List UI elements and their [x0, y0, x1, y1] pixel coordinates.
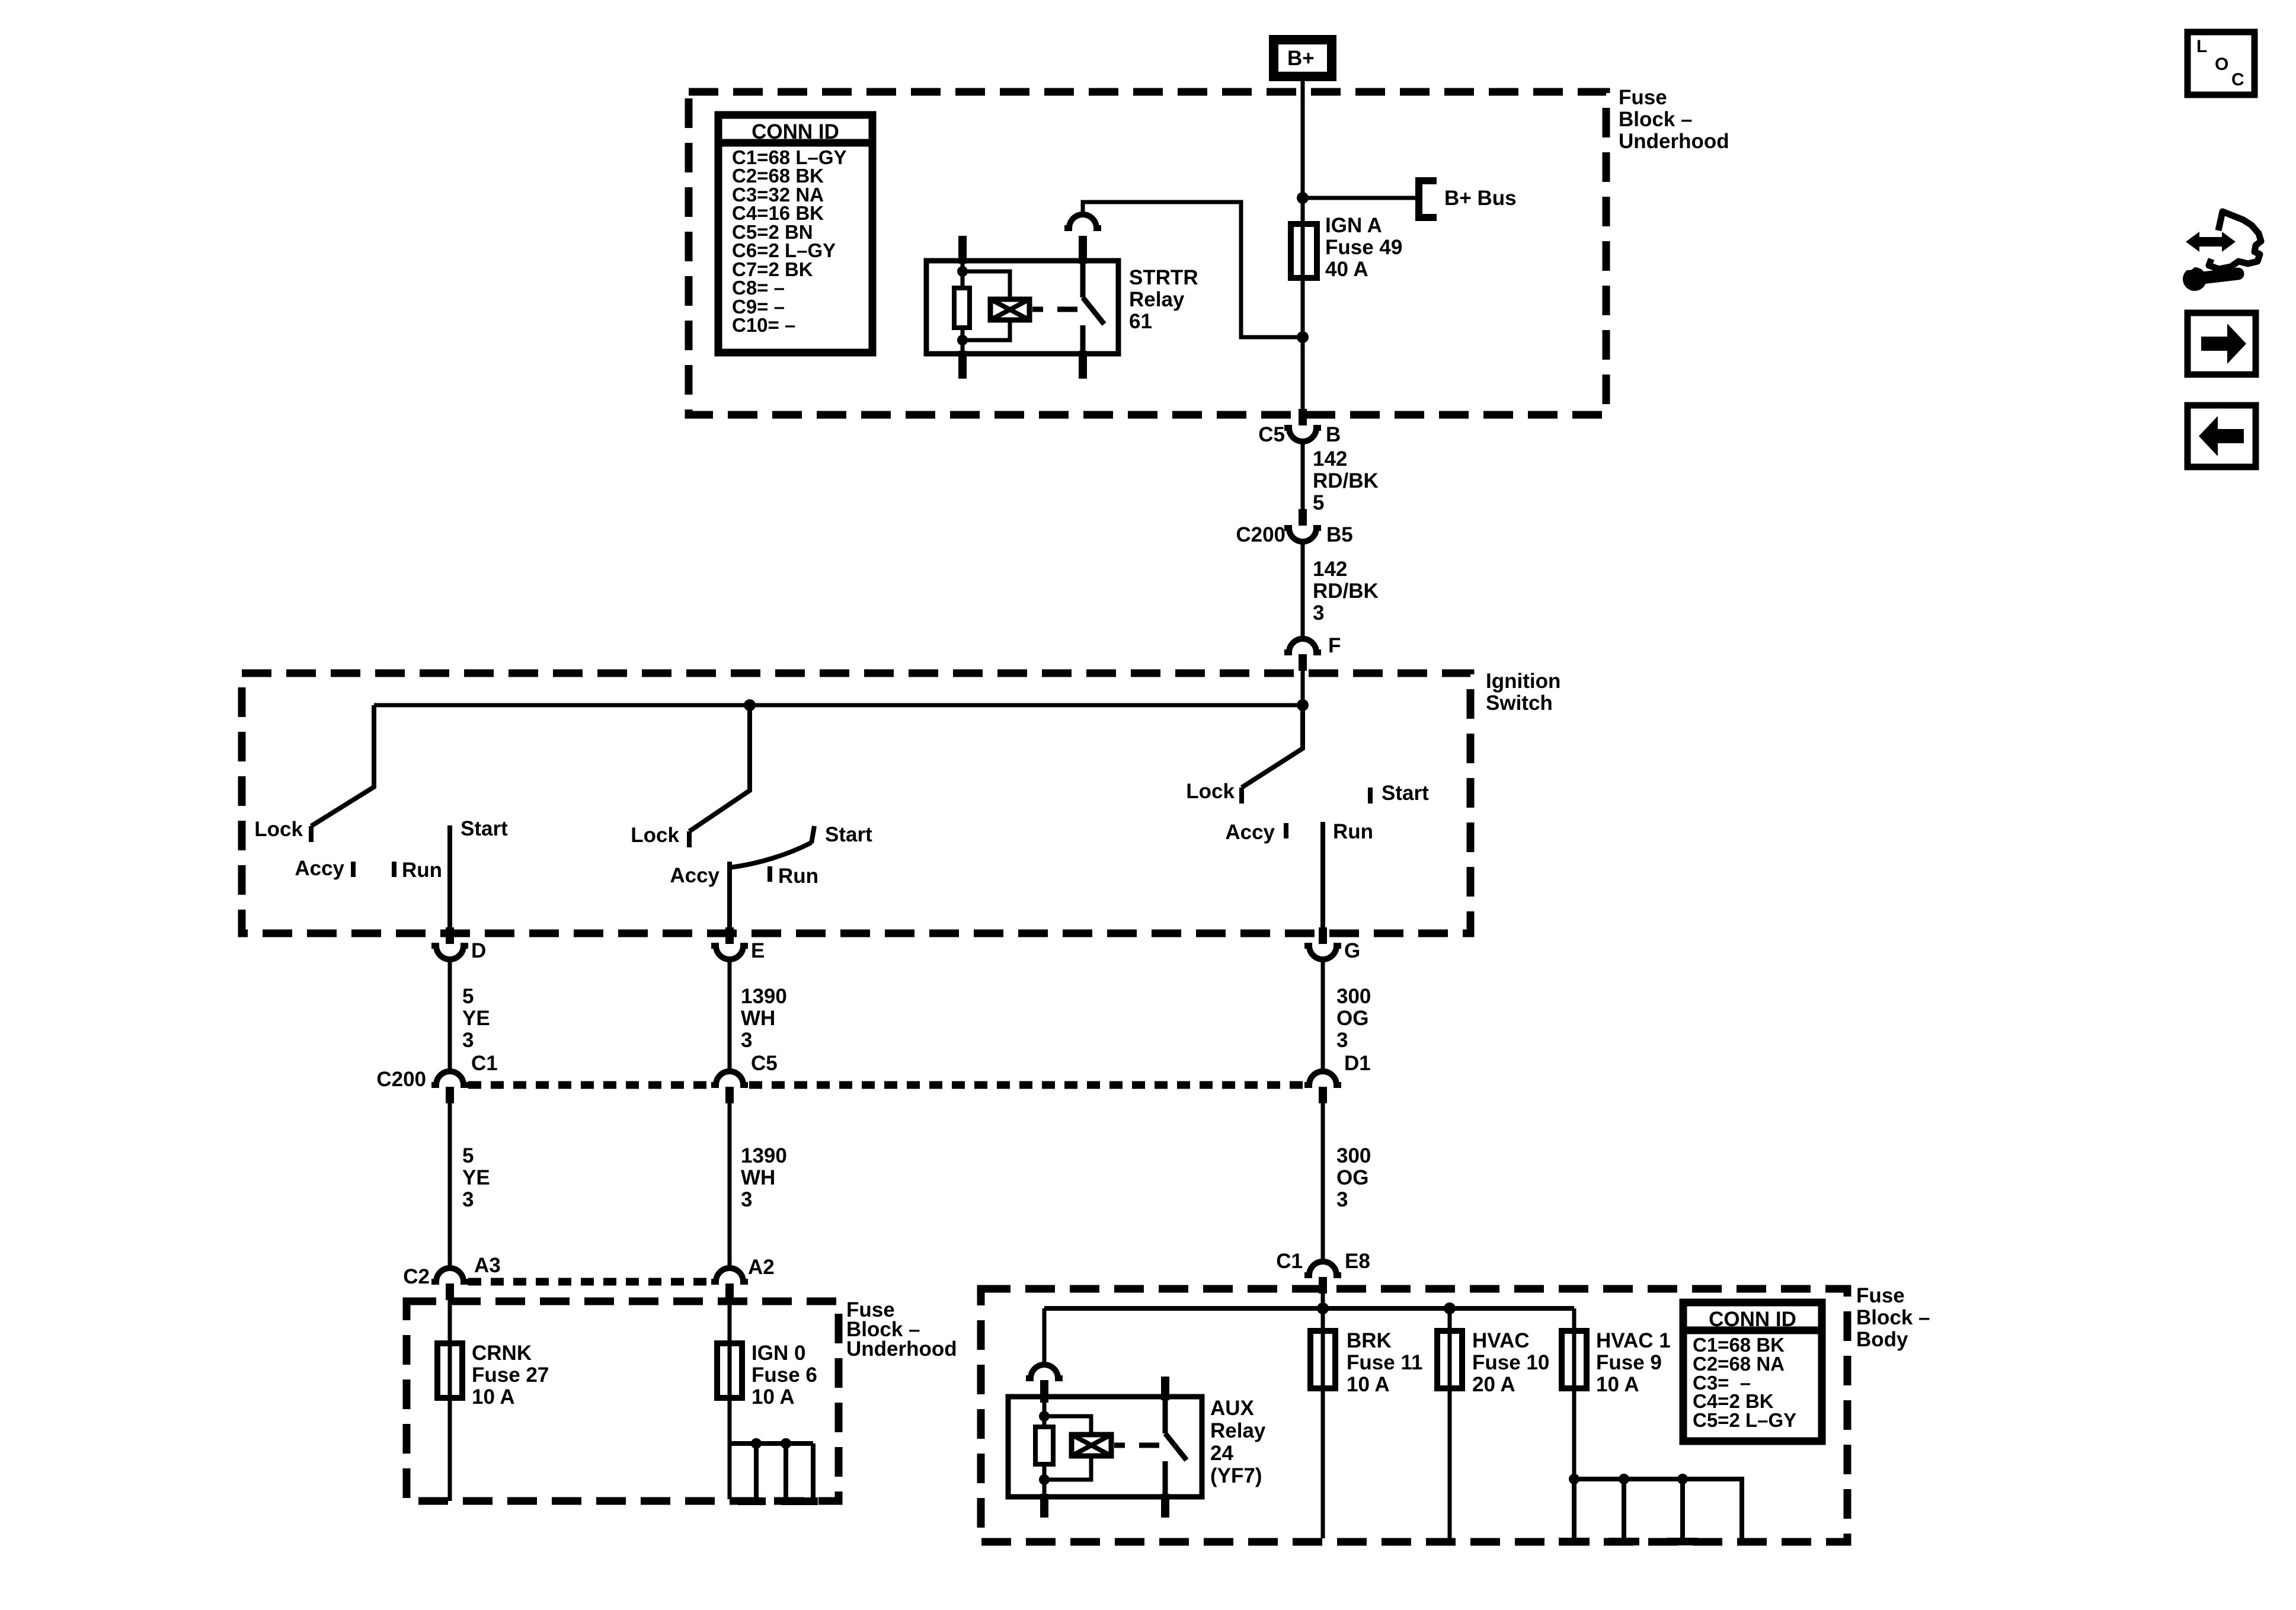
connector C200 pin B5 arc: [1284, 528, 1321, 542]
AUX relay actuator dashed link: [1114, 1443, 1159, 1448]
branch drop wires: [756, 1443, 813, 1499]
svg-text:C5: C5: [1258, 423, 1285, 446]
svg-text:Fuse: Fuse: [1619, 86, 1667, 109]
svg-text:OG: OG: [1336, 1007, 1368, 1030]
wire G down: [1321, 960, 1325, 1071]
label AUX Relay 24 (YF7): [1210, 1397, 1266, 1487]
wire HVAC to block bottom: [1448, 1388, 1452, 1538]
relay STRTR 61 box: [926, 261, 1118, 354]
junction dot AUX coil top: [1039, 1411, 1050, 1422]
svg-text:B: B: [1326, 423, 1341, 446]
svg-text:24: 24: [1210, 1442, 1233, 1465]
wire label 5 YE 3 (lower): [462, 1144, 490, 1211]
label Fuse Block Underhood (top right): [1619, 86, 1729, 153]
svg-text:10 A: 10 A: [472, 1385, 515, 1409]
svg-text:Fuse 10: Fuse 10: [1472, 1351, 1549, 1374]
svg-text:Run: Run: [1333, 820, 1373, 843]
svg-text:142: 142: [1313, 558, 1347, 581]
svg-text:A2: A2: [748, 1256, 775, 1279]
svg-text:Lock: Lock: [631, 824, 679, 847]
connector F arc: [1284, 639, 1321, 652]
svg-text:C10= –: C10= –: [732, 314, 795, 336]
wire C1 down: [448, 1103, 452, 1268]
C2-A2 inline connector dashed line: [468, 1278, 711, 1286]
svg-text:O: O: [2215, 55, 2228, 74]
wire label 300 OG 3 (lower): [1336, 1144, 1371, 1211]
svg-text:C5: C5: [751, 1052, 778, 1075]
junction dot HVAC1 branch 1: [1569, 1474, 1579, 1484]
svg-text:Fuse: Fuse: [1856, 1284, 1905, 1307]
junction dot branch 1: [751, 1438, 762, 1449]
connector arc at STRTR relay pin 30: [1064, 215, 1101, 228]
svg-text:C1: C1: [471, 1052, 498, 1075]
connector E arc: [711, 946, 748, 959]
label Fuse Block Body: [1856, 1284, 1930, 1351]
svg-text:Accy: Accy: [1225, 821, 1275, 844]
svg-text:Start: Start: [825, 823, 872, 846]
wire BRK to block bottom: [1321, 1388, 1325, 1538]
svg-text:3: 3: [741, 1188, 752, 1211]
svg-text:Fuse 27: Fuse 27: [472, 1363, 549, 1387]
svg-text:WH: WH: [741, 1007, 775, 1030]
wire C5 down: [728, 1103, 732, 1268]
svg-text:HVAC 1: HVAC 1: [1596, 1329, 1671, 1352]
connector G stub: [1319, 927, 1327, 944]
svg-text:IGN A: IGN A: [1325, 214, 1382, 237]
wire bus down to AUX relay: [1043, 1308, 1047, 1365]
svg-text:Start: Start: [461, 817, 508, 840]
svg-text:10 A: 10 A: [1347, 1373, 1390, 1396]
wire fuse IGN A down to C5: [1301, 278, 1305, 409]
fuse HVAC 1 Fuse 9 10A: [1572, 1308, 1576, 1331]
svg-text:B+ Bus: B+ Bus: [1444, 187, 1517, 210]
wire label 1390 WH 3 (lower): [741, 1144, 787, 1211]
wire CRNK to block bottom: [448, 1398, 452, 1501]
svg-text:D: D: [471, 939, 486, 962]
pole 3 Accy contact: [1284, 823, 1288, 838]
wire STRTR relay output to main feed: [1083, 202, 1303, 337]
svg-text:Run: Run: [402, 859, 442, 882]
junction dot B+ bus tap: [1297, 192, 1309, 204]
svg-text:5: 5: [1313, 491, 1324, 514]
wire D down: [448, 960, 452, 1071]
svg-text:C5=2 L–GY: C5=2 L–GY: [1693, 1409, 1796, 1431]
HVAC 1 branch bus: [1574, 1479, 1742, 1538]
AUX relay pin 30 stub: [1040, 1380, 1048, 1403]
connector C2 pin A3 stub: [446, 1283, 454, 1300]
branch terminal foot 1: [738, 1497, 766, 1505]
connector F stub: [1299, 654, 1307, 671]
svg-text:3: 3: [741, 1029, 752, 1052]
svg-text:Block –: Block –: [1619, 108, 1693, 131]
svg-text:300: 300: [1336, 1144, 1371, 1167]
junction dot bus middle pole: [744, 699, 756, 711]
icon LOC: [2188, 32, 2255, 95]
branch terminal foot 2: [781, 1497, 818, 1505]
svg-text:300: 300: [1336, 985, 1371, 1008]
svg-text:3: 3: [1336, 1029, 1348, 1052]
pole 1 Start contact output: [447, 825, 452, 928]
label STRTR Relay 61: [1129, 266, 1198, 333]
STRTR relay coil branch wires: [962, 264, 1010, 354]
connector C200 pin D1 stub: [1319, 1087, 1327, 1103]
pole 2 output wire: [727, 862, 732, 928]
STRTR relay resistor: [954, 288, 970, 328]
svg-text:C200: C200: [376, 1068, 426, 1091]
connector C2 pin A2 stub: [725, 1283, 734, 1300]
connector C200 pin C5 stub: [725, 1087, 734, 1103]
fuse block underhood dashed box: [689, 92, 1606, 415]
svg-text:10 A: 10 A: [1596, 1373, 1639, 1396]
connector C5 pin B stub: [1299, 409, 1307, 425]
svg-text:Switch: Switch: [1486, 692, 1553, 715]
wire F into ignition switch: [1301, 670, 1305, 705]
fuse IGN A Fuse 49 40A: [1291, 224, 1317, 278]
fuse block underhood (lower) dashed box: [407, 1301, 839, 1501]
ignition switch dashed box: [242, 673, 1470, 933]
pole 3 Run contact output: [1320, 822, 1325, 928]
svg-text:C200: C200: [1236, 523, 1285, 546]
svg-text:YE: YE: [462, 1166, 490, 1189]
fuse BRK Fuse 11 10A: [1321, 1308, 1325, 1331]
wire C200 to F: [1301, 542, 1305, 639]
junction dot relay coil bottom: [957, 335, 968, 345]
svg-text:CONN ID: CONN ID: [1709, 1308, 1796, 1331]
svg-text:Run: Run: [778, 865, 818, 888]
connector C1 pin E8 stub: [1319, 1277, 1327, 1294]
junction dot bus right pole: [1297, 699, 1309, 711]
ignition switch pole 2 wiper: [689, 705, 750, 831]
svg-text:C: C: [2231, 70, 2244, 89]
STRTR relay pin 85 stub bottom: [958, 351, 967, 379]
svg-text:61: 61: [1129, 310, 1152, 333]
wire IGN 0 to block bottom: [728, 1398, 732, 1499]
svg-text:5: 5: [462, 985, 474, 1008]
svg-text:5: 5: [462, 1144, 474, 1167]
STRTR relay coil: [990, 299, 1029, 320]
wire A3 down to CRNK fuse: [448, 1299, 452, 1343]
pole 2 Lock contact: [687, 831, 692, 847]
pole 1 Lock contact: [309, 826, 314, 842]
wire E down: [728, 960, 732, 1071]
svg-text:CONN ID: CONN ID: [752, 120, 839, 143]
fuse CRNK Fuse 27 10A: [437, 1343, 462, 1398]
AUX relay resistor: [1035, 1427, 1053, 1464]
svg-text:Underhood: Underhood: [846, 1337, 957, 1361]
ignition switch pole 3 wiper: [1242, 705, 1303, 788]
svg-text:AUX: AUX: [1210, 1397, 1255, 1420]
svg-text:STRTR: STRTR: [1129, 266, 1198, 289]
svg-text:L: L: [2196, 37, 2207, 56]
wire to B+ Bus: [1303, 196, 1418, 200]
label Ignition Switch: [1486, 670, 1560, 715]
pole 2 track curve Accy to Start: [730, 843, 811, 868]
svg-text:Underhood: Underhood: [1619, 130, 1729, 153]
wire HVAC 1 down to branch bus: [1572, 1388, 1576, 1479]
svg-text:B5: B5: [1326, 523, 1353, 546]
connector C200 pin B5 stub: [1299, 509, 1307, 526]
svg-text:142: 142: [1313, 447, 1347, 470]
connector D stub: [446, 927, 454, 944]
wire E8 into body block: [1321, 1293, 1325, 1308]
wire label 1390 WH 3 (upper): [741, 985, 787, 1052]
svg-text:E: E: [751, 939, 765, 962]
svg-text:RD/BK: RD/BK: [1313, 580, 1379, 603]
connector C1 pin E8 arc: [1304, 1262, 1341, 1275]
connector D arc: [431, 946, 468, 959]
STRTR relay pin 86 stub top: [958, 236, 967, 264]
svg-text:1390: 1390: [741, 985, 787, 1008]
connector C200 pin D1 arc: [1304, 1071, 1341, 1085]
pole 3 Lock contact: [1239, 788, 1244, 804]
svg-text:WH: WH: [741, 1166, 775, 1189]
junction dot feed/relay: [1297, 331, 1309, 343]
wire A2 down to IGN 0 fuse: [728, 1299, 732, 1343]
svg-text:20 A: 20 A: [1472, 1373, 1515, 1396]
svg-text:3: 3: [1336, 1188, 1348, 1211]
junction dot bus at E8: [1317, 1302, 1329, 1314]
svg-text:Block –: Block –: [1856, 1306, 1930, 1329]
svg-text:Body: Body: [1856, 1328, 1908, 1351]
STRTR relay actuator dashed link: [1032, 307, 1077, 312]
svg-text:A3: A3: [474, 1254, 501, 1277]
connector C5 pin B arc: [1284, 428, 1321, 441]
svg-text:C1: C1: [1276, 1250, 1303, 1273]
connector C200 pin C5 arc: [711, 1071, 748, 1085]
wire ignition feed bus: [374, 703, 1303, 708]
svg-text:G: G: [1344, 939, 1360, 962]
C200 inline connector dashed line: [468, 1081, 1303, 1089]
svg-text:F: F: [1328, 634, 1341, 657]
svg-text:CRNK: CRNK: [472, 1342, 532, 1365]
svg-text:Start: Start: [1382, 782, 1429, 805]
IGN 0 branch bus: [730, 1441, 813, 1446]
svg-text:10 A: 10 A: [752, 1385, 795, 1409]
wire label 5 YE 3 (upper): [462, 985, 490, 1052]
wire B+ down to IGN A fuse: [1301, 81, 1305, 224]
svg-text:OG: OG: [1336, 1166, 1368, 1189]
relay AUX 24 box: [1008, 1397, 1202, 1497]
icon next arrow: [2188, 313, 2256, 375]
svg-text:Fuse 6: Fuse 6: [752, 1363, 817, 1387]
svg-text:BRK: BRK: [1347, 1329, 1392, 1352]
svg-text:3: 3: [462, 1188, 474, 1211]
svg-text:40 A: 40 A: [1325, 258, 1368, 281]
AUX relay switch contacts: [1161, 1377, 1187, 1518]
svg-text:(YF7): (YF7): [1210, 1464, 1262, 1487]
label Fuse Block Underhood (lower): [846, 1298, 957, 1361]
connector C200 pin C1 stub: [446, 1087, 454, 1103]
wire label 142 RD/BK 3: [1313, 558, 1379, 625]
svg-text:Ignition: Ignition: [1486, 670, 1560, 693]
wire C5 to C200: [1301, 442, 1305, 510]
connector E stub: [725, 927, 734, 944]
connector table CONN ID (body): [1683, 1302, 1822, 1441]
pole 1 Accy contact: [351, 862, 356, 877]
branch terminal feet: [1559, 1538, 1590, 1545]
junction dot HVAC1 branch 3: [1677, 1474, 1688, 1484]
fuse block body dashed box: [981, 1289, 1847, 1542]
svg-text:3: 3: [1313, 601, 1324, 625]
pole 3 Start contact: [1368, 788, 1373, 804]
power symbol B+: [1274, 40, 1332, 76]
connector arc at AUX relay pin 30: [1026, 1365, 1063, 1378]
AUX relay coil branch wires: [1044, 1403, 1091, 1497]
icon back arrow: [2188, 405, 2256, 467]
svg-text:B+: B+: [1287, 47, 1315, 70]
svg-text:RD/BK: RD/BK: [1313, 469, 1379, 492]
STRTR relay switch contacts: [1079, 236, 1104, 379]
svg-text:Fuse 9: Fuse 9: [1596, 1351, 1662, 1374]
body block feed bus: [1044, 1306, 1574, 1311]
svg-text:E8: E8: [1345, 1250, 1370, 1273]
svg-text:Fuse 11: Fuse 11: [1347, 1351, 1422, 1374]
B+ Bus terminal: [1419, 181, 1437, 217]
svg-text:Fuse 49: Fuse 49: [1325, 236, 1402, 259]
icon routing/service: [2182, 212, 2261, 291]
svg-text:Relay: Relay: [1210, 1419, 1266, 1442]
AUX relay pin 85 stub bottom: [1040, 1494, 1048, 1518]
junction dot branch 2: [781, 1438, 791, 1449]
svg-text:C2: C2: [403, 1265, 430, 1288]
svg-text:Lock: Lock: [254, 818, 303, 841]
fuse IGN 0 Fuse 6 10A: [717, 1343, 742, 1398]
svg-text:Lock: Lock: [1186, 780, 1235, 803]
fuse HVAC Fuse 10 20A: [1448, 1308, 1452, 1331]
connector table CONN ID (underhood): [718, 115, 872, 353]
junction dot AUX coil bottom: [1039, 1474, 1050, 1485]
junction dot bus at HVAC: [1444, 1302, 1456, 1314]
svg-text:HVAC: HVAC: [1472, 1329, 1530, 1352]
svg-text:D1: D1: [1344, 1052, 1371, 1075]
wire label 300 OG 3 (upper): [1336, 985, 1371, 1052]
wire label 142 RD/BK 5: [1313, 447, 1379, 514]
svg-text:3: 3: [462, 1029, 474, 1052]
connector C2 pin A3 arc: [431, 1268, 468, 1282]
svg-text:YE: YE: [462, 1007, 490, 1030]
AUX relay coil: [1072, 1435, 1111, 1456]
wire D1 down: [1321, 1103, 1325, 1262]
svg-text:Relay: Relay: [1129, 288, 1185, 311]
pole 2 Start contact: [811, 826, 814, 843]
svg-text:Accy: Accy: [670, 864, 720, 887]
label IGN A Fuse 49 40 A: [1325, 214, 1402, 281]
pole 1 Run contact: [392, 862, 396, 877]
connector C200 pin C1 arc: [431, 1071, 468, 1085]
connector G arc: [1304, 946, 1341, 959]
svg-text:1390: 1390: [741, 1144, 787, 1167]
svg-text:Accy: Accy: [295, 857, 344, 880]
connector C2 pin A2 arc: [711, 1268, 748, 1282]
pole 2 Run contact: [768, 866, 772, 882]
svg-text:IGN 0: IGN 0: [752, 1342, 805, 1365]
ignition switch pole 1 wiper: [311, 705, 374, 826]
junction dot HVAC1 branch 2: [1619, 1474, 1629, 1484]
junction dot relay coil top: [957, 266, 968, 277]
branch drops: [1574, 1479, 1683, 1538]
